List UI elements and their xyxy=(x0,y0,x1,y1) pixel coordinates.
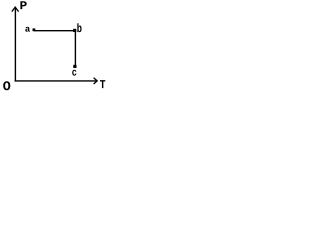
label a xyxy=(25,27,30,32)
wire b to c xyxy=(74,31,76,66)
T axis (horizontal) xyxy=(15,80,97,82)
node c dot xyxy=(73,65,76,68)
P axis (vertical) xyxy=(14,8,16,82)
P axis arrowhead xyxy=(12,7,19,12)
node a dot xyxy=(33,28,36,31)
label T xyxy=(100,80,105,88)
wire a to b xyxy=(34,30,75,32)
label c xyxy=(72,70,76,76)
node b dot xyxy=(73,29,76,32)
label b xyxy=(77,23,81,32)
label P xyxy=(20,1,26,9)
label O xyxy=(3,81,10,90)
T axis arrowhead xyxy=(94,78,98,84)
